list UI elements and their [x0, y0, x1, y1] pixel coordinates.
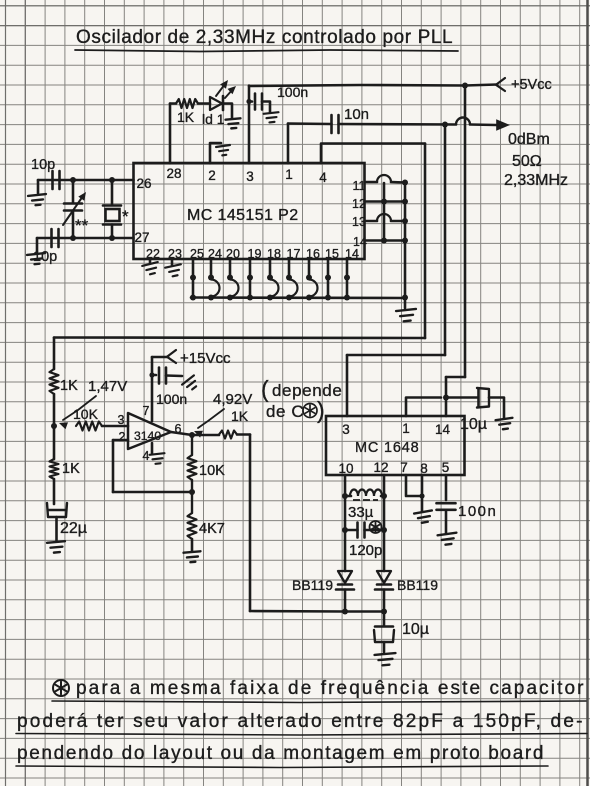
svg-text:1,47V: 1,47V: [88, 378, 127, 395]
capacitor C7 10u cup: [477, 388, 489, 408]
wire tap to C6: [152, 374, 156, 377]
wire pin23 stem: [171, 259, 174, 265]
wire U1 bottom pin at x=250 to bus: [249, 259, 252, 298]
svg-text:poderá ter seu valor alterado: poderá ter seu valor alterado entre 82pF…: [17, 711, 585, 732]
wire pin12 link: [365, 200, 406, 203]
svg-text:(: (: [261, 376, 269, 402]
wire pin28 to R1: [170, 102, 176, 105]
IC U3 MC1648 body: [326, 416, 465, 475]
ground (bus B): [396, 309, 417, 322]
wire LED to ground: [223, 104, 232, 119]
inductor L1 33u: [345, 495, 351, 498]
ground (R7): [184, 551, 202, 562]
title underline: [75, 50, 458, 52]
wire hop over +5 drop: [456, 118, 470, 125]
wire bus A vertical: [383, 183, 386, 241]
wire pin14 link: [365, 239, 406, 242]
LED D1 arrow 2: [225, 89, 233, 98]
node 100n tap: [246, 99, 251, 104]
IC U1 MC145151P2 body: [134, 163, 365, 259]
crystal X1 bottom plate: [103, 223, 121, 226]
ground (C7): [496, 418, 514, 430]
svg-text:4K7: 4K7: [199, 521, 225, 537]
svg-text:2,33MHz: 2,33MHz: [504, 172, 568, 189]
wire pin4 riser: [321, 144, 425, 164]
wire pin11 link: [365, 181, 378, 184]
ground (C3): [264, 112, 280, 123]
svg-text:ld 1: ld 1: [202, 111, 225, 127]
node pin11 bus B: [402, 180, 408, 186]
svg-text:7: 7: [143, 404, 150, 418]
capacitor C6 100n plates: [158, 368, 161, 384]
svg-text:120p: 120p: [349, 542, 382, 559]
note line 3 underline: [16, 766, 548, 768]
svg-text:): ): [317, 397, 325, 423]
crystal X1 bottom stem: [111, 225, 114, 239]
node pin14 bus B: [402, 238, 408, 244]
node D3 bus: [381, 609, 387, 615]
annotation arrow 4,92V: [198, 409, 224, 428]
svg-text:14: 14: [435, 422, 451, 437]
ground (C10): [438, 533, 458, 546]
node trimmer bottom: [70, 235, 76, 241]
resistor R7 4K7: [191, 492, 193, 513]
LED D1 arrow 1: [216, 84, 225, 96]
resistor R6 10K: [191, 435, 193, 455]
svg-text:MC 145151 P2: MC 145151 P2: [187, 207, 299, 224]
wire D2 to bus: [344, 590, 347, 612]
varactor D3 BB119: [377, 571, 391, 583]
wire U1 bottom pin at x=193 to bus: [192, 259, 195, 298]
svg-text:12: 12: [352, 197, 366, 211]
wire +5Vcc rail: [249, 85, 497, 87]
op-amp U2 triangle: [128, 413, 171, 449]
svg-text:3: 3: [342, 422, 350, 437]
svg-text:20: 20: [226, 247, 240, 261]
svg-text:1: 1: [402, 421, 410, 436]
wire pin22 stem: [149, 259, 152, 263]
wire R4 to C5: [53, 479, 56, 504]
wire VCO out vertical: [444, 125, 447, 356]
varactor D2 BB119: [338, 571, 352, 583]
node D2 bus: [342, 609, 348, 615]
wire pin13 link: [365, 220, 378, 223]
svg-text:4: 4: [143, 449, 150, 463]
wire +5 to pin14: [445, 377, 448, 416]
wire pin3 riser to +5 rail: [248, 86, 251, 164]
wire C1 to ground: [37, 180, 40, 193]
capacitor C7 10u plate: [477, 389, 480, 406]
ground (pin23): [165, 264, 183, 277]
wire VCO out to pin3: [346, 355, 349, 416]
svg-text:50Ω: 50Ω: [512, 153, 542, 170]
wire feedback to node B: [113, 491, 192, 494]
svg-text:2: 2: [119, 430, 126, 444]
wire D3 to bus: [383, 590, 386, 612]
wire U1 bottom pin at x=270 to bus: [269, 259, 272, 278]
capacitor C2 10p plates: [50, 229, 53, 247]
wire node to C7: [446, 396, 478, 399]
ground (LED): [226, 118, 242, 128]
ground (C2): [27, 253, 46, 265]
trimmer CT top stem: [72, 180, 75, 203]
trimmer CT plates: [64, 202, 82, 205]
svg-text:8: 8: [420, 461, 428, 476]
wire +5 drop: [464, 86, 467, 378]
node crystal bottom: [109, 235, 115, 241]
svg-text:2: 2: [208, 168, 216, 183]
svg-text:1K: 1K: [62, 461, 80, 477]
svg-text:12: 12: [373, 460, 388, 475]
svg-text:pendendo do layout ou da monta: pendendo do layout ou da montagem em pro…: [17, 743, 545, 764]
wire pin12 stem: [383, 475, 386, 496]
svg-text:BB119: BB119: [292, 577, 333, 593]
wire varactor right riser: [383, 530, 386, 571]
wire Vtune to varactors: [250, 610, 345, 613]
svg-text:depende: depende: [272, 381, 342, 400]
capacitor C1 10p plates: [51, 171, 54, 189]
wire tap to C3: [249, 100, 252, 103]
node pin12 bus A: [381, 199, 387, 205]
wire pin7 riser: [151, 357, 154, 421]
svg-text:28: 28: [166, 166, 181, 181]
wire VCO out horizontal: [347, 354, 445, 357]
svg-text:10K: 10K: [199, 463, 225, 479]
wire varactor bus right: [345, 610, 384, 613]
wire C5 to ground: [55, 517, 58, 541]
wire C10 to ground: [445, 510, 448, 533]
svg-text:de C: de C: [266, 402, 304, 421]
wire pin2 stub: [113, 439, 128, 442]
node pin14/pin1: [443, 395, 449, 401]
crystal X1 top stem: [111, 180, 114, 205]
trimmer CT bottom stem: [72, 211, 75, 239]
wire Vtune down: [249, 435, 252, 612]
wire R3 to opamp pin3: [102, 425, 128, 428]
wire R5 corner: [237, 433, 250, 436]
svg-text:33µ: 33µ: [348, 504, 374, 521]
crystal X1 top plate: [103, 204, 121, 207]
svg-text:**: **: [75, 216, 89, 235]
resistor R1 1K: [176, 99, 198, 108]
wire pin26 line: [38, 179, 134, 182]
node B feedback: [189, 489, 195, 495]
node pin12 bus B: [402, 199, 408, 205]
svg-text:4: 4: [319, 170, 327, 185]
trimmer CT arrow: [63, 196, 83, 225]
resistor R2 1K: [50, 369, 59, 394]
ground (pins 7,8): [414, 510, 434, 523]
node 120p right: [381, 527, 387, 533]
wire bus to C9: [383, 612, 386, 627]
svg-text:3140: 3140: [134, 429, 161, 443]
+5Vcc connector chevron: [496, 78, 505, 91]
note star symbol: [53, 680, 69, 696]
capacitor C10 100n plates: [437, 502, 456, 505]
crystal X1 box: [106, 209, 120, 221]
wire pin10 stem: [344, 475, 347, 496]
wire C6 to ground: [166, 374, 182, 377]
svg-text:26: 26: [136, 176, 151, 191]
node pin12 tank: [381, 493, 387, 499]
output arrowhead: [496, 119, 510, 131]
svg-text:10µ: 10µ: [402, 621, 429, 638]
wire C9 to ground: [383, 642, 386, 652]
node output drop: [442, 122, 448, 128]
wire U1 bottom pin at x=230 to bus: [229, 259, 232, 278]
node 100n tap (+15): [149, 372, 154, 377]
wire tank left down: [344, 496, 347, 530]
wire C3 to ground: [262, 102, 270, 113]
wire output rail right: [339, 123, 457, 126]
node pin13 bus B: [402, 218, 408, 224]
capacitor C3 100n plates: [254, 94, 257, 110]
resistor R3 10K: [76, 422, 102, 431]
capacitor C4 10n plates: [330, 115, 333, 133]
node A (opamp +set): [51, 423, 57, 429]
+15Vcc connector chevron: [167, 350, 176, 363]
svg-text:5: 5: [442, 460, 450, 475]
svg-text:1K: 1K: [60, 378, 78, 394]
annotation arrow 1,47V: [63, 396, 96, 420]
wire U1 bottom pin at x=328 to bus: [327, 259, 330, 298]
wire +5 jog: [446, 376, 465, 379]
svg-text:23: 23: [168, 247, 182, 261]
ground (C5): [47, 541, 66, 553]
wire U1 bottom pin at x=309 to bus: [308, 259, 311, 278]
wire to output arrow: [470, 123, 496, 126]
+15Vcc corner wire: [152, 356, 168, 359]
capacitor C9 10u plate: [375, 625, 393, 628]
svg-text:0dBm: 0dBm: [508, 131, 550, 148]
wire bus B stem: [404, 298, 407, 309]
svg-text:+15Vcc: +15Vcc: [180, 350, 231, 367]
wire C2 to ground: [36, 238, 39, 252]
svg-text:10K: 10K: [73, 406, 99, 422]
wire pin27 line: [37, 237, 134, 240]
wire pin5 stem: [445, 475, 448, 500]
node pin14 bus A: [381, 238, 387, 244]
svg-text:27: 27: [134, 230, 149, 245]
wire U1 bottom pin at x=211 to bus: [210, 259, 213, 278]
capacitor C8 120p: [345, 529, 358, 532]
wire pin1 riser: [287, 124, 290, 164]
wire C7 to ground: [489, 398, 504, 419]
wire R2 to node A: [53, 394, 56, 426]
svg-text:22µ: 22µ: [60, 520, 87, 537]
wire pin7 stem: [406, 475, 422, 496]
ground (U2 pin4): [150, 453, 166, 464]
svg-text:3: 3: [118, 413, 125, 427]
wire opamp pin4 stem: [151, 443, 154, 453]
svg-text:BB119: BB119: [397, 577, 438, 593]
ground (pin2): [216, 145, 231, 156]
wire ground bus: [191, 296, 405, 299]
wire output rail left: [288, 122, 332, 125]
svg-text:+5Vcc: +5Vcc: [511, 77, 552, 93]
node 120p left: [342, 527, 348, 533]
wire pin28 riser: [169, 104, 172, 164]
svg-text:4,92V: 4,92V: [213, 391, 252, 408]
node trimmer top: [70, 177, 76, 183]
node pin10 tank: [342, 493, 348, 499]
note line 2 underline: [16, 734, 587, 736]
svg-text:*: *: [122, 207, 129, 226]
ground (pin22): [142, 262, 160, 276]
wire U1 bottom pin at x=347 to bus: [346, 259, 349, 298]
wire varactor left riser: [344, 530, 347, 571]
note line 1 underline: [52, 701, 586, 703]
node bus B to gnd bus: [402, 295, 408, 301]
wire PD down right side: [424, 144, 427, 339]
LED D1 triangle: [210, 97, 222, 110]
svg-text:10p: 10p: [31, 157, 55, 173]
wire output to R5: [192, 434, 219, 437]
wire R7 to ground: [191, 539, 194, 551]
resistor R4 1K: [50, 459, 59, 479]
capacitor C9 10u cup: [374, 630, 394, 642]
wire PD to R2: [53, 338, 56, 370]
wire tank right down: [383, 496, 386, 530]
svg-text:3: 3: [246, 169, 254, 184]
wire feedback down: [112, 440, 115, 492]
wire pin1 MC1648 riser: [406, 398, 441, 417]
wire bus B vertical: [404, 183, 407, 298]
ground (C1): [28, 194, 47, 206]
svg-text:100n: 100n: [458, 503, 497, 520]
svg-text:1K: 1K: [177, 109, 195, 125]
svg-text:22: 22: [146, 247, 160, 261]
svg-text:7: 7: [400, 460, 408, 475]
node +5 drop: [462, 83, 468, 89]
svg-text:MC 1648: MC 1648: [355, 440, 419, 456]
resistor R5 1K: [219, 431, 237, 439]
svg-text:para a mesma faixa de frequênc: para a mesma faixa de frequência este ca…: [76, 678, 586, 699]
svg-text:10: 10: [338, 461, 353, 476]
ground (C9): [375, 653, 397, 666]
node crystal top: [109, 177, 115, 183]
wire pin8 stem: [421, 475, 424, 511]
svg-text:1: 1: [285, 167, 293, 182]
node pin8 join: [419, 493, 424, 498]
wire opamp output: [171, 432, 192, 435]
wire R1 to LED: [198, 102, 210, 105]
L1 core dashes: [353, 499, 378, 501]
capacitor C5 22u electrolytic: [48, 509, 65, 512]
svg-text:Oscilador de 2,33MHz controlad: Oscilador de 2,33MHz controlado por PLL: [76, 27, 453, 48]
LED D1 cathode bar: [222, 96, 225, 110]
C8 star mark: [370, 521, 382, 533]
wire PD long left: [54, 336, 425, 339]
wire node A down to R4: [53, 426, 56, 459]
svg-text:1K: 1K: [231, 408, 249, 424]
svg-text:100n: 100n: [156, 391, 187, 407]
wire U1 bottom pin at x=289 to bus: [288, 259, 291, 278]
svg-text:10n: 10n: [344, 106, 369, 123]
ground (C6): [182, 375, 200, 392]
wire pin2 riser: [210, 143, 221, 163]
node output 4,92V: [189, 432, 195, 438]
